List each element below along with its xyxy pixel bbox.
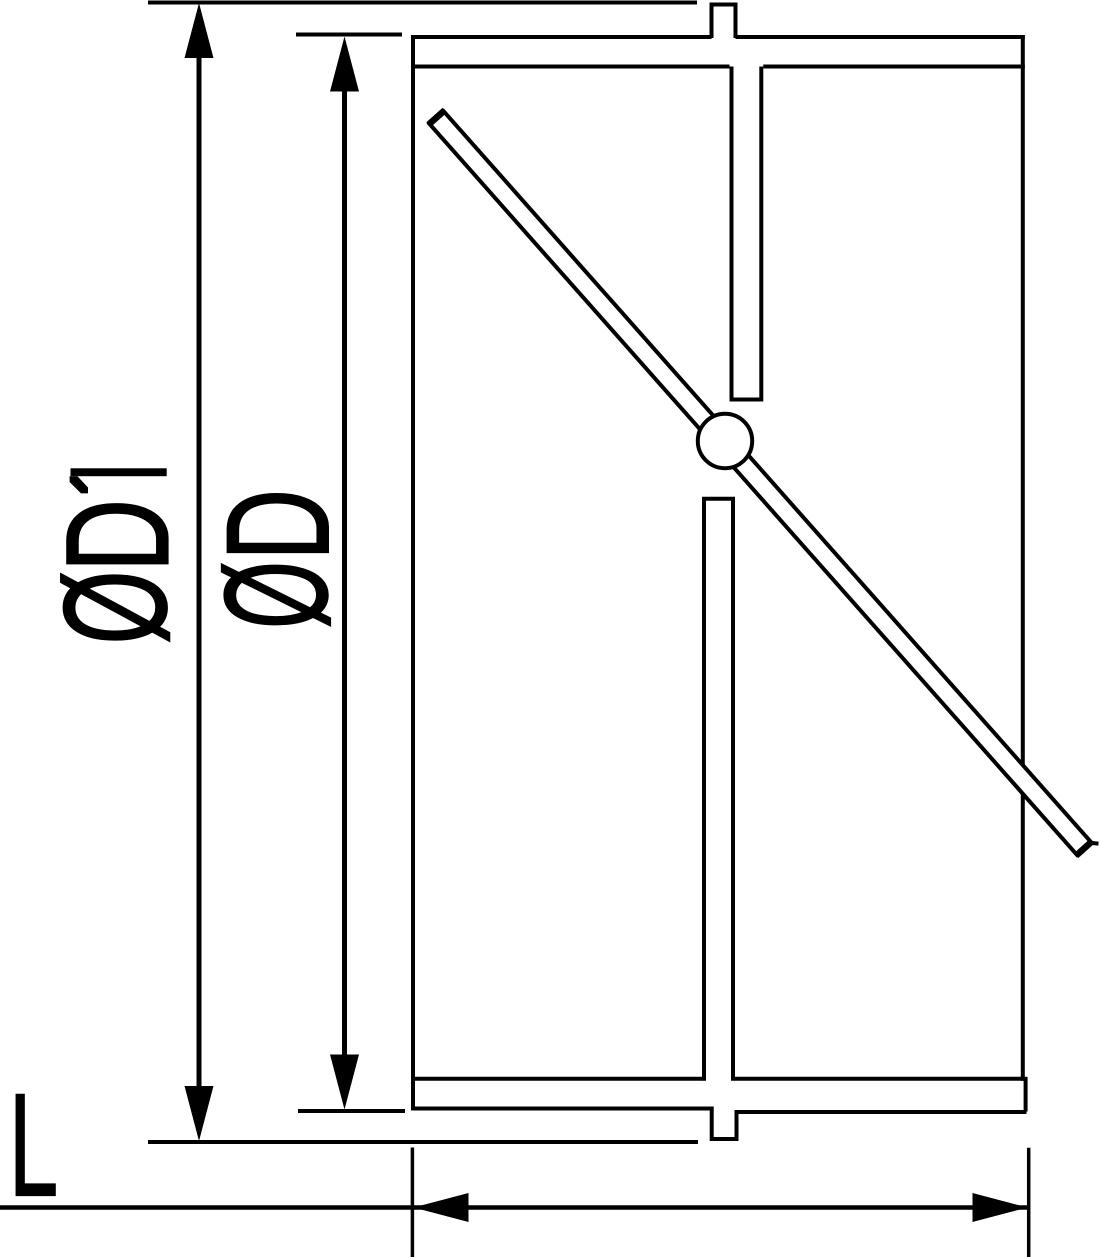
- extension line D top: [296, 33, 402, 37]
- flap bottom end cap: [1076, 841, 1092, 856]
- svg-text:L: L: [9, 1062, 59, 1226]
- L extension line left: [411, 1148, 415, 1257]
- upper shaft channel: [732, 67, 762, 400]
- duct body right edge: [1021, 35, 1025, 1081]
- arrow D top: [330, 37, 359, 92]
- pivot circle: [698, 414, 752, 468]
- extension line D1 top: [148, 1, 697, 5]
- lower shaft channel: [704, 499, 733, 1081]
- arrow D1 bottom: [185, 1086, 214, 1141]
- flap top end cap: [429, 110, 445, 124]
- flap bottom tip tick: [1090, 841, 1099, 846]
- bottom flange top line (right of shaft): [735, 1077, 1028, 1081]
- dimension line D: [342, 90, 347, 1060]
- damper flap blade: [429, 111, 1091, 855]
- arrow D1 top: [185, 3, 214, 58]
- extension line D1 bottom: [148, 1140, 698, 1144]
- L dimension line: [0, 1205, 1027, 1210]
- top flange top line (left of tab): [411, 35, 712, 39]
- bottom flange right edge: [1024, 1077, 1028, 1112]
- top tab: [712, 5, 736, 39]
- dimension line D1: [197, 50, 202, 1095]
- arrow D bottom: [330, 1055, 359, 1110]
- extension line D bottom: [298, 1109, 405, 1113]
- svg-text:D: D: [35, 499, 199, 572]
- svg-text:Ø: Ø: [194, 561, 358, 629]
- svg-text:D: D: [196, 489, 360, 561]
- svg-text:Ø: Ø: [34, 570, 197, 644]
- duct body left edge: [411, 36, 415, 1111]
- label OD1: glyph 1 (flag): [70, 476, 88, 493]
- arrow L right: [973, 1193, 1028, 1222]
- bottom flange bottom line with bottom tab: [411, 1109, 1027, 1140]
- top flange bottom line (left of shaft): [411, 65, 730, 69]
- bottom flange top line (left of shaft): [413, 1077, 703, 1081]
- top flange top line (right of tab): [736, 35, 1025, 39]
- arrow L left: [414, 1193, 469, 1222]
- L extension line right: [1027, 1148, 1031, 1257]
- top flange bottom line (right of shaft): [763, 65, 1025, 69]
- label OD1: glyph 1 (stem): [71, 468, 167, 476]
